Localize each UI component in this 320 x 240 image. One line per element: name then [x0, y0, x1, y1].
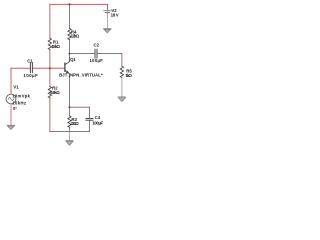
svg-text:18 V: 18 V — [111, 12, 119, 17]
svg-text:100µF: 100µF — [90, 58, 104, 63]
svg-text:5.6kΩ: 5.6kΩ — [50, 90, 60, 95]
svg-text:Q1: Q1 — [70, 57, 76, 62]
svg-text:100µF: 100µF — [92, 121, 103, 126]
svg-text:10kHz: 10kHz — [12, 101, 26, 106]
svg-text:100µF: 100µF — [23, 73, 38, 78]
svg-text:15kΩ: 15kΩ — [51, 44, 60, 49]
svg-text:2.2kΩ: 2.2kΩ — [70, 34, 80, 39]
svg-text:BJT_NPN_VIRTUAL*: BJT_NPN_VIRTUAL* — [59, 73, 103, 78]
svg-text:C2: C2 — [94, 43, 100, 48]
svg-text:C4: C4 — [95, 115, 101, 120]
svg-text:C1: C1 — [27, 58, 33, 63]
svg-text:0°: 0° — [13, 106, 17, 111]
svg-text:10mVpk: 10mVpk — [12, 94, 30, 99]
svg-text:V1: V1 — [13, 85, 19, 90]
svg-text:220Ω: 220Ω — [71, 121, 80, 126]
svg-text:1kΩ: 1kΩ — [125, 73, 132, 78]
